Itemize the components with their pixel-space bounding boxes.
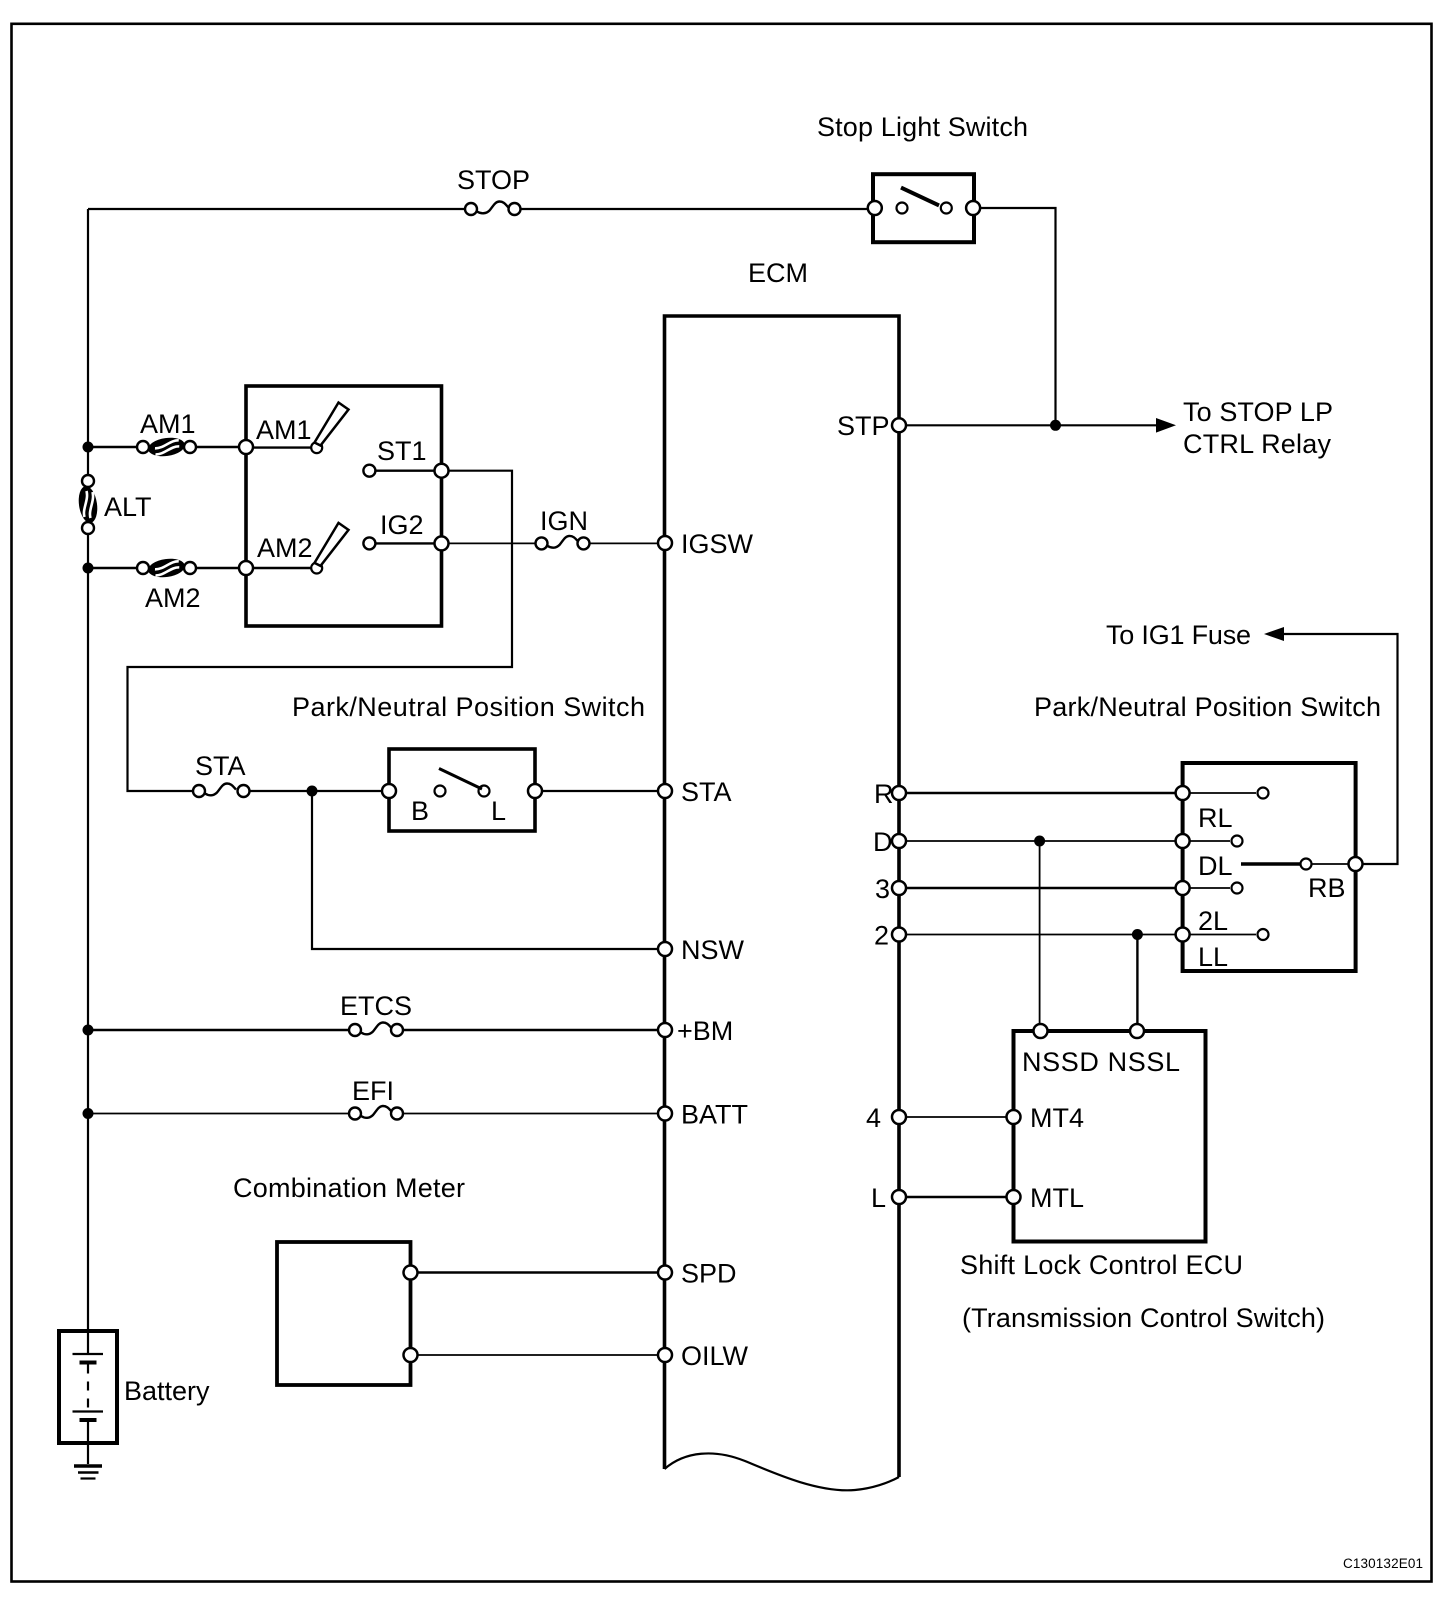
svg-text:4: 4 <box>866 1103 881 1133</box>
terminal 4 <box>866 1103 906 1133</box>
terminal NSSL <box>1130 1024 1144 1038</box>
terminal IGSW <box>658 529 754 559</box>
wire: EFI row <box>88 1113 658 1115</box>
ignition switch SW2 <box>246 386 442 626</box>
svg-text:2: 2 <box>874 921 889 951</box>
svg-text:Combination Meter: Combination Meter <box>233 1173 465 1203</box>
fuse STA <box>193 751 250 797</box>
fuse EFI <box>349 1076 403 1120</box>
svg-text:DL: DL <box>1198 851 1233 881</box>
svg-text:Park/Neutral Position Switch: Park/Neutral Position Switch <box>292 692 645 722</box>
svg-text:2L: 2L <box>1198 906 1228 936</box>
wire: AM2 row <box>88 567 239 569</box>
fusible link AM2 <box>137 557 201 613</box>
shift lock control ECU U2 <box>1014 1031 1206 1242</box>
wire: AM1 row <box>88 446 239 448</box>
arrow to STOP LP CTRL relay <box>1156 418 1176 433</box>
wire: STP to STOP LP CTRL relay <box>906 424 1158 426</box>
wire: 2 row <box>906 934 1176 936</box>
wire: NSSD drop <box>1039 841 1041 1024</box>
label: To STOP LP CTRL Relay <box>1183 397 1333 459</box>
svg-text:To IG1 Fuse: To IG1 Fuse <box>1106 620 1251 650</box>
wire: left battery bus <box>87 209 89 1331</box>
svg-text:R: R <box>874 779 894 809</box>
wire: ST1 to STA fuse <box>128 471 513 791</box>
svg-text:L: L <box>871 1183 886 1213</box>
terminal NSW <box>658 935 745 965</box>
svg-text:ALT: ALT <box>104 492 152 522</box>
node: junction AM1 <box>83 442 94 453</box>
wire: NSSL drop <box>1136 935 1138 1025</box>
svg-text:STP: STP <box>837 411 890 441</box>
svg-text:NSSD NSSL: NSSD NSSL <box>1022 1047 1180 1077</box>
terminal STP <box>837 411 906 441</box>
svg-text:IGN: IGN <box>540 506 588 536</box>
park/neutral position switch SW4 (right) <box>1183 763 1356 971</box>
stop light switch SW1 <box>817 112 1028 242</box>
wire: STA fuse to park/neutral switch <box>250 790 383 792</box>
fuse STOP <box>457 165 530 215</box>
terminal DL <box>1176 834 1243 881</box>
svg-text:AM2: AM2 <box>257 533 313 563</box>
node: junction NSSL <box>1132 929 1143 940</box>
wire: meter to SPD <box>418 1271 659 1273</box>
wire: R row <box>906 792 1176 794</box>
svg-text:AM1: AM1 <box>256 415 312 445</box>
svg-text:Battery: Battery <box>124 1376 210 1406</box>
svg-text:EFI: EFI <box>352 1076 394 1106</box>
terminal SPD <box>658 1259 737 1289</box>
svg-text:IG2: IG2 <box>380 510 424 540</box>
svg-text:+BM: +BM <box>677 1016 733 1046</box>
combination meter M1 <box>233 1173 465 1385</box>
terminal 2 <box>874 921 906 951</box>
terminal D <box>873 827 906 857</box>
terminal BATT <box>658 1100 748 1130</box>
svg-text:ECM: ECM <box>748 258 808 288</box>
svg-text:B: B <box>411 796 429 826</box>
svg-text:D: D <box>873 827 893 857</box>
node: junction STP/switch <box>1050 420 1061 431</box>
wire: ETCS row <box>88 1029 658 1031</box>
wire: switch to STA terminal <box>542 790 658 792</box>
terminal AM1 <box>239 403 349 455</box>
node: junction NSW tap <box>307 786 318 797</box>
svg-text:RL: RL <box>1198 803 1233 833</box>
alternator ALT <box>77 475 152 534</box>
fuse IGN <box>536 506 590 549</box>
wire: IG2 to IGN fuse <box>449 542 536 544</box>
wire: L to MTL <box>906 1196 1007 1198</box>
ECM U1 <box>665 258 900 1490</box>
svg-text:MT4: MT4 <box>1030 1103 1084 1133</box>
svg-text:AM1: AM1 <box>140 409 196 439</box>
fusible link AM1 <box>137 409 196 458</box>
svg-text:BATT: BATT <box>681 1100 748 1130</box>
terminal LL <box>1176 928 1269 973</box>
terminal RL <box>1176 786 1269 833</box>
svg-text:3: 3 <box>875 874 890 904</box>
svg-text:STA: STA <box>195 751 246 781</box>
svg-text:L: L <box>491 796 506 826</box>
svg-text:LL: LL <box>1198 942 1228 972</box>
terminal +BM <box>658 1016 733 1046</box>
ground <box>74 1466 102 1479</box>
wire: meter to OILW <box>418 1354 659 1356</box>
terminal MTL <box>1007 1183 1085 1213</box>
terminal AM2 <box>239 523 349 575</box>
terminal 2L <box>1176 881 1243 936</box>
svg-text:OILW: OILW <box>681 1341 749 1371</box>
park/neutral position switch SW3 <box>292 692 645 831</box>
terminal NSSD <box>1034 1024 1048 1038</box>
terminal OILW <box>658 1341 749 1371</box>
battery BT1 <box>59 1331 210 1464</box>
svg-text:ST1: ST1 <box>377 436 427 466</box>
terminal ST1 <box>363 436 448 478</box>
svg-text:To STOP LP: To STOP LP <box>1183 397 1333 427</box>
wire: DL to RB link <box>1241 859 1349 870</box>
wire: 3 row <box>906 887 1176 889</box>
terminal RB <box>1308 857 1363 903</box>
wire: top STOP feed from left bus to stop light switch <box>88 208 871 210</box>
svg-text:STOP: STOP <box>457 165 530 195</box>
terminal 3 <box>875 874 906 904</box>
svg-text:(Transmission Control Switch): (Transmission Control Switch) <box>962 1303 1325 1333</box>
wire: D row <box>906 840 1176 842</box>
svg-text:Stop Light Switch: Stop Light Switch <box>817 112 1028 142</box>
svg-text:SPD: SPD <box>681 1259 737 1289</box>
wire: IGN fuse to IGSW <box>590 542 659 544</box>
terminal R <box>874 779 906 809</box>
svg-text:Shift Lock Control ECU: Shift Lock Control ECU <box>960 1250 1243 1280</box>
svg-text:CTRL Relay: CTRL Relay <box>1183 429 1332 459</box>
node: junction ETCS <box>83 1025 94 1036</box>
node: junction AM2 <box>83 563 94 574</box>
terminal L <box>871 1183 906 1213</box>
node: junction EFI <box>83 1108 94 1119</box>
svg-text:RB: RB <box>1308 873 1346 903</box>
terminal IG2 <box>363 510 448 550</box>
svg-text:Park/Neutral Position Switch: Park/Neutral Position Switch <box>1034 692 1381 722</box>
svg-text:STA: STA <box>681 777 732 807</box>
svg-text:AM2: AM2 <box>145 583 201 613</box>
arrow to IG1 fuse <box>1264 627 1284 641</box>
wire: RB to IG1 fuse <box>1282 634 1398 864</box>
wire: 4 to MT4 <box>906 1116 1007 1118</box>
svg-text:NSW: NSW <box>681 935 745 965</box>
svg-text:MTL: MTL <box>1030 1183 1084 1213</box>
terminal MT4 <box>1007 1103 1085 1133</box>
wire: NSW branch <box>312 791 658 949</box>
node: junction NSSD <box>1034 836 1045 847</box>
svg-text:C130132E01: C130132E01 <box>1343 1556 1423 1571</box>
svg-text:IGSW: IGSW <box>681 529 754 559</box>
wire: stop light switch to STP node <box>980 208 1055 425</box>
terminal STA <box>658 777 732 807</box>
fuse ETCS <box>340 991 412 1036</box>
svg-text:ETCS: ETCS <box>340 991 412 1021</box>
